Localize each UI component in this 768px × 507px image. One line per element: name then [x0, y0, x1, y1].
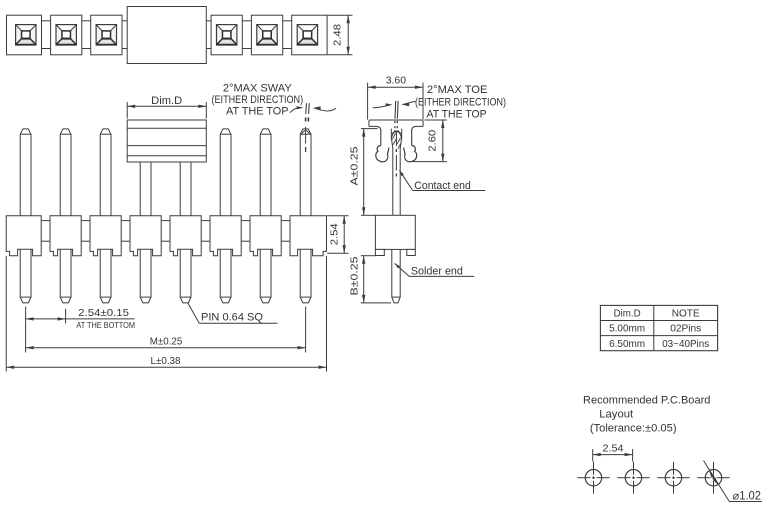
svg-text:Contact end: Contact end [414, 180, 471, 192]
svg-text:⌀1.02: ⌀1.02 [733, 491, 762, 503]
pcb hole pad 4 with crosshair [705, 470, 721, 486]
toe leader curve left with arrow [373, 105, 391, 108]
toe symbol: tilted pin tip above plate [394, 101, 397, 119]
dimension M+-0.25 extension line at pin 8 [305, 307, 307, 353]
top view carrier link 4 between blocks [206, 20, 211, 22]
pcb hole pad 3 with crosshair [665, 470, 681, 486]
front view pin 2 upper shank with chamfered tip [60, 129, 71, 216]
top view carrier link 6 between blocks [283, 20, 292, 22]
dimension 3.60 dimension line with arrows [368, 86, 423, 88]
front view insulator block for pin 4 with standoff feet [130, 216, 161, 256]
front view insulator link between pins 5 and 6 [201, 220, 210, 222]
dimension 2.54+-0.15 extension lines at pins 1 and 2 [25, 307, 27, 353]
toe leader curve right with arrow [402, 103, 409, 106]
leader PIN 0.64 SQ pointing at pin 5 tail [188, 303, 200, 324]
pcb hole pad 1 with crosshair [585, 470, 601, 486]
svg-text:03~40Pins: 03~40Pins [662, 339, 709, 350]
toe symbol centerline through contact [395, 131, 397, 147]
front view pin 1 solder tail with chamfered tip [20, 249, 31, 303]
front view pin 8 upper shank with chamfered tip [300, 129, 311, 216]
svg-text:AT THE BOTTOM: AT THE BOTTOM [76, 320, 135, 330]
svg-text:2.54: 2.54 [603, 442, 624, 454]
front view insulator link between pins 7 and 8 [281, 220, 290, 222]
svg-text:NOTE: NOTE [672, 309, 700, 320]
front view pin 8 solder tail with chamfered tip [300, 249, 311, 303]
top view insulator block 5 [251, 15, 282, 55]
dimension L+-0.38 dimension line with arrows [6, 366, 326, 368]
top view carrier link 1 between blocks [42, 20, 51, 22]
top view pin 2 square pin end (bevelled) [56, 39, 76, 45]
svg-text:5.00mm: 5.00mm [609, 324, 645, 335]
front view insulator block for pin 2 with standoff feet [50, 216, 81, 256]
front view pin 3 solder tail with chamfered tip [100, 249, 111, 303]
dimension M+-0.25 dimension line with arrows [26, 347, 306, 349]
front view insulator link between pins 3 and 4 [121, 220, 130, 222]
side view housing standoff foot left [375, 249, 384, 255]
front view pin 3 upper shank with chamfered tip [100, 129, 111, 216]
top view carrier link 5 between blocks [242, 20, 251, 22]
side view plate bottom edge right segment [416, 125, 424, 127]
svg-text:AT THE TOP: AT THE TOP [226, 106, 289, 118]
svg-text:3.60: 3.60 [386, 75, 407, 87]
svg-text:L±0.38: L±0.38 [151, 356, 181, 367]
front view pin 5 solder tail with chamfered tip [180, 249, 191, 303]
leader line for Contact end [399, 170, 412, 190]
top view insulator block 2 [51, 15, 82, 55]
specification table column divider [653, 305, 655, 350]
svg-text:Dim.D: Dim.D [151, 95, 182, 107]
sway symbol centerline through pin 8 [305, 127, 307, 144]
side view contact neck left outline [377, 126, 381, 145]
side view contact crimp lobe left [376, 146, 389, 162]
front view insulator link between pins 1 and 2 [41, 220, 50, 222]
front view pin 4 upper shank (below spacer) [139, 162, 141, 216]
pcb dimension 2.54 extension lines [592, 449, 594, 462]
top view pin 6 square pin end (bevelled) [297, 39, 317, 45]
svg-text:2°MAX SWAY: 2°MAX SWAY [223, 83, 292, 95]
side view pin solder tail with chamfered tip [392, 256, 400, 303]
front view pin 1 upper shank with chamfered tip [20, 129, 31, 216]
sway leader curve left with arrow [290, 108, 302, 113]
front view pin 5 upper shank (below spacer) [179, 162, 181, 216]
specification table row line 1 [600, 320, 717, 322]
front view pin 2 solder tail with chamfered tip [60, 249, 71, 303]
front view insulator link between pins 2 and 3 [81, 220, 90, 222]
svg-text:(EITHER DIRECTION): (EITHER DIRECTION) [212, 94, 304, 106]
dimension A+-0.25 extension lines [361, 128, 378, 130]
sway leader curve right with arrow [314, 106, 321, 109]
top view insulator block 1 [7, 15, 42, 55]
svg-text:(Tolerance:±0.05): (Tolerance:±0.05) [590, 422, 677, 434]
dimension 2.48 dimension line with arrows [347, 15, 349, 55]
svg-text:AT THE TOP: AT THE TOP [427, 108, 487, 120]
svg-text:(EITHER DIRECTION): (EITHER DIRECTION) [415, 96, 506, 108]
dimension Dim.D dimension line with arrows [127, 105, 206, 107]
front view pin 7 solder tail with chamfered tip [260, 249, 271, 303]
front view pin 6 upper shank with chamfered tip [220, 129, 231, 216]
svg-text:6.50mm: 6.50mm [609, 339, 645, 350]
svg-text:Layout: Layout [599, 409, 633, 421]
top view pin 4 square pin end (bevelled) [217, 39, 237, 45]
side view insulator housing block [375, 215, 415, 249]
side view pin shank between contact and housing [392, 149, 394, 216]
front view insulator block for pin 5 with standoff feet [170, 216, 201, 256]
front view spacer block Dim.D wide (ribbed) [127, 120, 206, 162]
svg-text:2°MAX TOE: 2°MAX TOE [427, 84, 488, 96]
top view center spacer body (Dim.D part) [127, 7, 206, 64]
pcb hole diameter leader line with arrows [704, 461, 730, 502]
sway symbol: displaced tip outline on pin 8 [301, 131, 309, 135]
side view pin tip seen inside contact slot [391, 129, 401, 149]
front view insulator link between pins 4 and 5 [161, 220, 170, 222]
dimension 2.60 extension lines [425, 119, 447, 121]
dimension B+-0.25 extension lines [361, 255, 376, 257]
front view insulator block for pin 8 with standoff feet [290, 216, 327, 256]
front view insulator block for pin 1 with standoff feet [6, 216, 41, 256]
leader line for Solder end [395, 263, 410, 276]
svg-text:2.54±0.15: 2.54±0.15 [78, 308, 129, 319]
dimension L+-0.38 extension lines at housing ends [5, 256, 7, 372]
pcb dimension 2.54 dimension line with arrows [593, 454, 633, 456]
svg-text:2.54: 2.54 [329, 223, 341, 245]
svg-text:Recommended P.C.Board: Recommended P.C.Board [583, 395, 710, 407]
pcb hole pad 2 with crosshair [625, 470, 641, 486]
svg-text:Solder end: Solder end [411, 266, 463, 278]
dimension 2.54+-0.15 text shelf line [66, 318, 135, 320]
side view plate bottom edge left segment [369, 125, 377, 127]
top view carrier link 3 between blocks [122, 20, 127, 22]
dimension 2.48 extension lines (top view block height) [328, 14, 353, 16]
specification table row line 2 [600, 335, 717, 337]
dimension 2.54+-0.15 dimension line with arrows [26, 318, 66, 320]
side view contact neck right outline [412, 126, 416, 145]
front view pin 7 upper shank with chamfered tip [260, 129, 271, 216]
svg-text:PIN 0.64 SQ: PIN 0.64 SQ [201, 311, 263, 323]
dimension 2.54 housing height dimension line with arrows [343, 216, 345, 254]
side view top plate of contact [369, 120, 423, 126]
specification table frame [600, 305, 717, 350]
side view housing standoff foot right [407, 249, 416, 255]
svg-text:A±0.25: A±0.25 [349, 146, 360, 185]
svg-text:02Pins: 02Pins [670, 324, 701, 335]
top view pin 3 square pin end (bevelled) [96, 39, 116, 45]
svg-text:Dim.D: Dim.D [614, 309, 641, 320]
front view pin 4 solder tail with chamfered tip [140, 249, 151, 303]
front view insulator link between pins 6 and 7 [241, 220, 250, 222]
dimension 2.60 dimension line with arrows [442, 120, 444, 162]
dimension B+-0.25 dimension line with arrows [363, 256, 365, 303]
top view pin 5 square pin end (bevelled) [257, 39, 277, 45]
side view contact crimp lobe right [404, 146, 417, 162]
side view pin tip hatching [392, 133, 395, 139]
svg-text:2.48: 2.48 [331, 24, 343, 46]
front view insulator block for pin 3 with standoff feet [90, 216, 121, 256]
dimension Dim.D extension lines [126, 102, 128, 118]
front view pin 6 solder tail with chamfered tip [220, 249, 231, 303]
dimension 3.60 extension lines [367, 83, 369, 120]
top view insulator block 6 [292, 15, 327, 55]
svg-text:2.60: 2.60 [427, 130, 439, 152]
svg-text:B±0.25: B±0.25 [349, 256, 360, 295]
sway symbol: tilted pin tip above pin 8 [305, 103, 308, 114]
top view insulator block 3 [91, 15, 122, 55]
dimension 2.54 housing height extension lines [327, 215, 348, 217]
dimension A+-0.25 dimension line with arrows [363, 129, 365, 216]
top view carrier link 2 between blocks [82, 20, 91, 22]
svg-text:M±0.25: M±0.25 [150, 337, 183, 348]
front view insulator block for pin 6 with standoff feet [210, 216, 241, 256]
top view insulator block 4 [211, 15, 242, 55]
front view insulator block for pin 7 with standoff feet [250, 216, 281, 256]
top view pin 1 square pin end (bevelled) [16, 39, 36, 45]
